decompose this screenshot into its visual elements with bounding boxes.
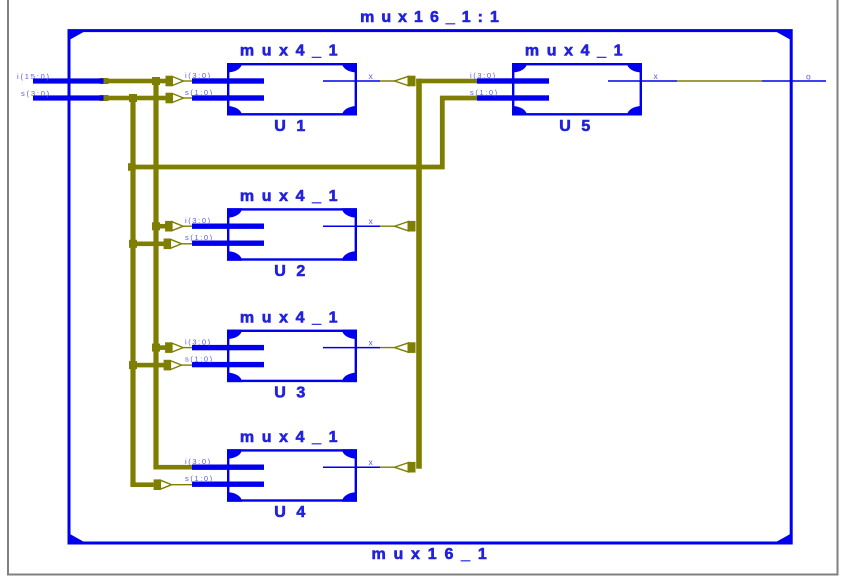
svg-text:mux16_1:1: mux16_1:1	[360, 9, 506, 26]
bus tap U1 x output	[380, 76, 416, 87]
wire: U4 i feed (bus elbow)	[153, 465, 198, 470]
bus tap U1 i	[166, 76, 193, 87]
op U4 mux4_1	[185, 429, 380, 521]
op U5 mux4_1	[470, 43, 677, 135]
wire: U2 s feed	[129, 242, 165, 247]
svg-text:U1: U1	[274, 118, 315, 135]
bus tap U3 s	[164, 360, 192, 371]
op U3 mux4_1	[185, 309, 380, 401]
bus: s vertical (x=133)	[130, 98, 135, 485]
bus tap U3 x output	[380, 342, 416, 353]
op U1 mux4_1	[185, 43, 380, 135]
bus: i vertical (x=156)	[153, 81, 158, 467]
wire: bus to U5 i pin	[416, 79, 477, 84]
input port i(15:0)	[17, 72, 104, 84]
wire: U4 s feed (bus elbow)	[130, 482, 153, 487]
junction on s bus at U2	[129, 240, 137, 248]
svg-text:U2: U2	[274, 263, 315, 280]
bus tap U2 i	[165, 221, 192, 232]
wire: U3 s feed	[129, 363, 165, 368]
svg-text:U5: U5	[559, 118, 600, 135]
wire: i bus feed horizontal (y=81)	[100, 78, 109, 84]
op U2 mux4_1	[185, 188, 380, 280]
wire: s bus feed horizontal (y=98)	[100, 95, 109, 101]
output port o	[762, 72, 826, 82]
wire: U3 i tap stub	[153, 345, 166, 350]
junction at s-bus top	[129, 94, 137, 102]
wire: s(3:2) to U5	[132, 98, 478, 167]
bus tap U3 i	[165, 342, 192, 353]
svg-text:s(3:0): s(3:0)	[21, 89, 51, 98]
input port s(3:0)	[21, 89, 104, 101]
svg-text:U4: U4	[274, 504, 315, 521]
wire: U5 x to output	[677, 80, 762, 82]
bus tap U1 s	[166, 93, 193, 104]
bus tap U2 s	[164, 239, 192, 250]
junction on s bus for s(3:2)	[128, 163, 136, 171]
junction at i-bus top	[152, 77, 160, 85]
schematic boundary box	[69, 31, 791, 543]
junction on i bus at U3	[152, 344, 160, 352]
svg-text:mux16_1: mux16_1	[371, 546, 494, 563]
bus tap U4 x output	[380, 462, 416, 473]
svg-text:o: o	[806, 72, 812, 82]
svg-text:i(15:0): i(15:0)	[17, 72, 51, 81]
junction on s bus at U3	[129, 361, 137, 369]
svg-text:U3: U3	[274, 385, 315, 402]
bus tap U4 s	[154, 479, 192, 490]
junction on i bus at U2	[152, 222, 160, 230]
bus: mux outputs vertical (x=419)	[416, 79, 422, 469]
wire: U2 i tap stub	[153, 224, 166, 229]
bus tap U2 x output	[380, 221, 416, 232]
